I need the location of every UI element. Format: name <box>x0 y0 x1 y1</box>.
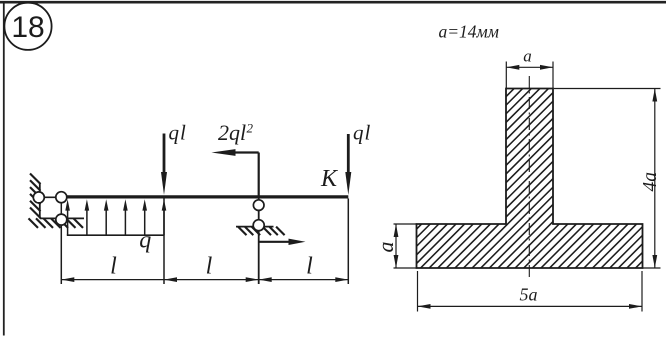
svg-text:2ql: 2ql <box>218 120 246 145</box>
force ql at first third <box>163 134 166 176</box>
horizontal arrow at middle support <box>259 241 290 243</box>
middle support ground line <box>236 226 274 228</box>
svg-text:l: l <box>110 254 117 280</box>
pin circle B <box>56 192 67 203</box>
pin circle A <box>33 192 44 203</box>
svg-text:q: q <box>139 228 151 254</box>
svg-text:2: 2 <box>247 121 254 136</box>
link rod B-C and extension line down <box>60 197 62 284</box>
beam <box>61 195 348 198</box>
section hatching <box>236 85 666 272</box>
top dimension a: extension lines <box>505 62 507 89</box>
right end extension line <box>347 199 349 285</box>
dimension line arrowheads <box>61 277 348 282</box>
svg-text:a: a <box>523 47 532 66</box>
pin circle D <box>253 200 264 211</box>
svg-text:ql: ql <box>353 121 371 145</box>
force ql at right end <box>347 134 350 176</box>
right dimension 4a: extension lines <box>554 88 661 90</box>
svg-text:5a: 5a <box>520 285 538 305</box>
svg-text:l: l <box>306 254 313 280</box>
right dimension 4a: line and arrows <box>654 89 656 269</box>
bottom dimension 5a: extension lines <box>417 271 419 312</box>
distributed load baseline <box>67 234 164 236</box>
dimension line l l l <box>61 279 348 281</box>
svg-text:l: l <box>206 254 213 280</box>
centerline <box>528 76 530 279</box>
border top <box>0 1 666 4</box>
pin circle E <box>253 220 264 231</box>
T-section outline <box>417 89 643 269</box>
svg-text:a: a <box>373 242 398 253</box>
pin circle C <box>56 214 67 225</box>
extension line below ql force <box>163 199 165 285</box>
svg-text:a=14мм: a=14мм <box>439 22 499 42</box>
left dimension a: extension lines <box>394 223 417 225</box>
svg-text:4a: 4a <box>640 172 661 192</box>
left support ground hatching <box>29 218 84 228</box>
middle support vertical line and extension <box>258 196 260 284</box>
border left <box>3 2 5 336</box>
link rod A-B <box>39 196 62 198</box>
T-section body with hatching <box>417 89 643 269</box>
distributed load arrowheads <box>65 199 166 210</box>
svg-text:18: 18 <box>11 11 44 44</box>
left support wall line <box>39 184 41 219</box>
problem number badge 18 <box>4 3 51 50</box>
left support wall hatching <box>30 174 41 219</box>
moment 2ql^2 arrow <box>258 153 260 197</box>
middle support ground hatching <box>238 227 285 236</box>
svg-text:K: K <box>320 166 339 192</box>
left dimension a: line and arrows <box>395 224 397 268</box>
svg-text:ql: ql <box>169 121 187 145</box>
bottom dimension 5a: line and arrows <box>418 305 643 307</box>
top dimension a: line and arrows <box>506 66 553 68</box>
distributed load arrows q <box>68 209 164 235</box>
left support ground line <box>40 217 84 219</box>
